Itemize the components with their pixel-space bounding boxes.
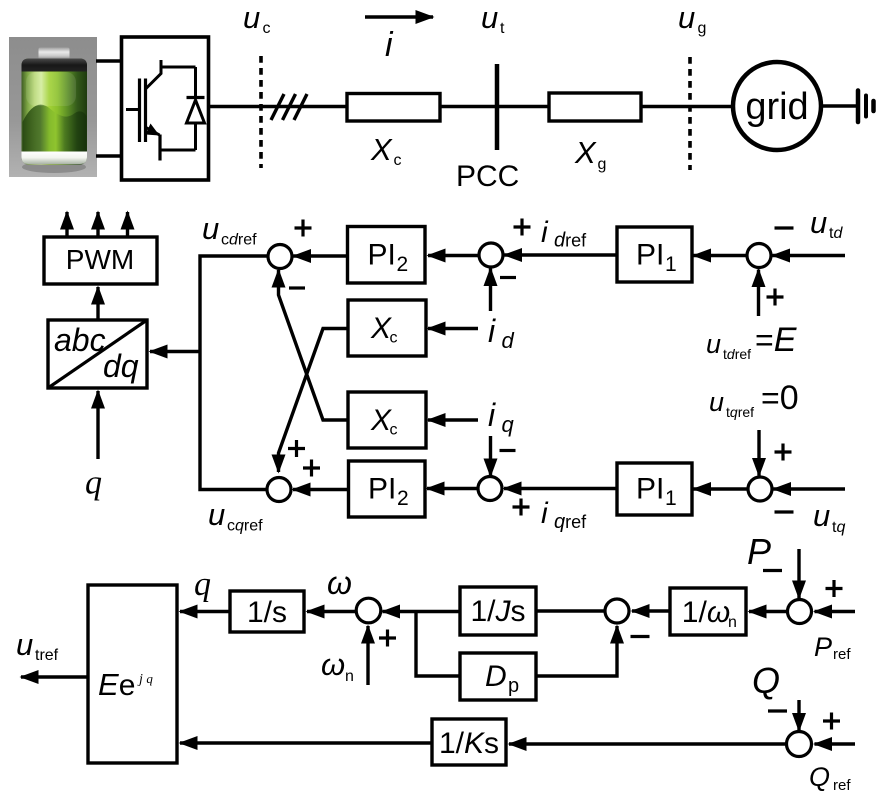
svg-text:u: u <box>202 211 219 246</box>
svg-text:P: P <box>747 531 771 572</box>
svg-text:ref: ref <box>833 777 851 794</box>
svg-text:PI: PI <box>368 239 396 272</box>
svg-text:g: g <box>698 20 707 37</box>
svg-text:c: c <box>390 422 398 439</box>
svg-text:u: u <box>481 0 498 35</box>
svg-text:i: i <box>488 313 496 349</box>
svg-text:qref: qref <box>554 511 587 533</box>
svg-text:dq: dq <box>103 348 139 384</box>
svg-text:2: 2 <box>397 487 409 510</box>
svg-text:i: i <box>541 497 549 530</box>
svg-text:tq: tq <box>832 519 845 536</box>
svg-text:c: c <box>263 20 271 37</box>
svg-text:q: q <box>194 566 211 603</box>
svg-text:n: n <box>728 614 737 631</box>
svg-text:tref: tref <box>35 647 59 664</box>
svg-text:u: u <box>243 0 260 35</box>
svg-text:Q: Q <box>809 762 830 792</box>
svg-text:1: 1 <box>665 253 677 276</box>
svg-text:d: d <box>502 328 515 353</box>
svg-text:c: c <box>390 330 398 347</box>
svg-text:PI: PI <box>636 473 664 506</box>
svg-text:u: u <box>810 205 827 240</box>
svg-text:cqref: cqref <box>227 518 263 535</box>
svg-text:ref: ref <box>833 646 851 663</box>
svg-text:P: P <box>814 632 832 662</box>
svg-text:PWM: PWM <box>66 244 134 275</box>
svg-text:i: i <box>488 397 496 433</box>
svg-text:n: n <box>345 668 354 685</box>
svg-text:u: u <box>678 0 695 35</box>
svg-text:X: X <box>574 135 597 170</box>
svg-text:q: q <box>502 412 515 437</box>
svg-text:j q: j q <box>137 671 153 687</box>
svg-text:u: u <box>16 627 33 662</box>
svg-text:u: u <box>706 329 721 359</box>
svg-text:t: t <box>500 20 505 37</box>
svg-text:i: i <box>385 26 394 64</box>
svg-text:u: u <box>813 498 830 533</box>
svg-text:i: i <box>541 216 549 249</box>
svg-text:X: X <box>370 132 393 167</box>
svg-text:Q: Q <box>752 660 780 701</box>
svg-text:=E: =E <box>755 321 797 359</box>
svg-text:grid: grid <box>745 86 808 128</box>
svg-text:2: 2 <box>397 253 409 276</box>
svg-text:PCC: PCC <box>456 160 519 193</box>
svg-text:D: D <box>485 660 507 693</box>
svg-text:PI: PI <box>636 239 664 272</box>
svg-text:tdref: tdref <box>723 346 751 362</box>
svg-text:1: 1 <box>665 487 677 510</box>
svg-text:g: g <box>598 156 607 173</box>
svg-text:u: u <box>709 387 724 417</box>
svg-text:p: p <box>508 675 519 697</box>
svg-text:1/s: 1/s <box>247 596 287 629</box>
svg-text:ω: ω <box>321 647 345 682</box>
svg-text:c: c <box>394 152 402 169</box>
svg-text:=0: =0 <box>761 379 799 417</box>
svg-text:dref: dref <box>554 230 587 252</box>
svg-text:abc: abc <box>54 322 106 358</box>
svg-text:PI: PI <box>368 473 396 506</box>
svg-text:1/Js: 1/Js <box>470 595 525 628</box>
svg-text:cdref: cdref <box>221 232 257 249</box>
svg-text:q: q <box>85 465 102 502</box>
svg-text:1/Ks: 1/Ks <box>439 727 499 760</box>
svg-text:1/ω: 1/ω <box>682 596 730 629</box>
svg-text:Ee: Ee <box>98 667 135 702</box>
svg-text:tqref: tqref <box>726 404 754 420</box>
svg-text:ω: ω <box>327 565 352 601</box>
svg-text:u: u <box>208 497 225 532</box>
svg-text:td: td <box>829 225 843 242</box>
